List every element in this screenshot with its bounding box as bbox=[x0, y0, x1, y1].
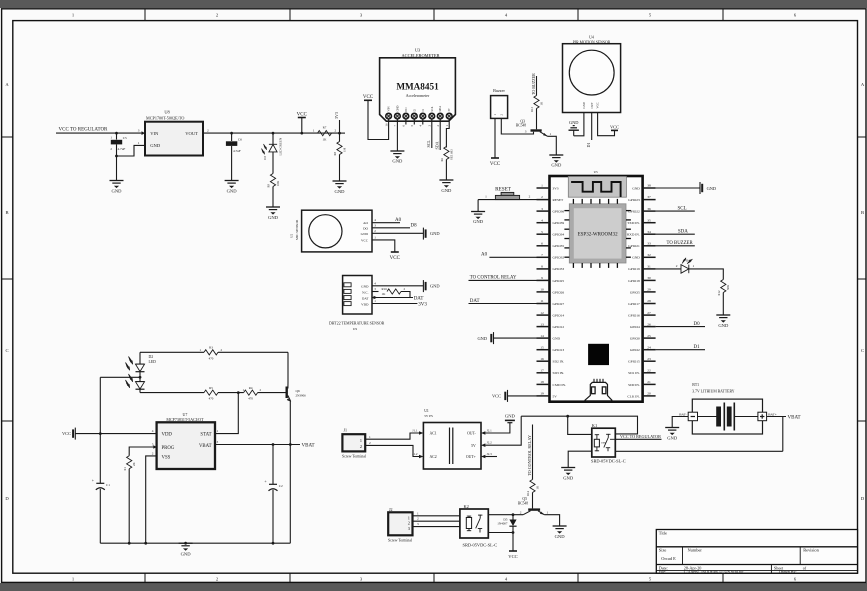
wire K2 coil+ to Q5 collector bbox=[488, 514, 523, 516]
resistor R14 1K bbox=[526, 425, 539, 497]
svg-text:OUT+: OUT+ bbox=[466, 455, 476, 459]
svg-text:GPIO0: GPIO0 bbox=[630, 337, 640, 341]
svg-text:GND: GND bbox=[181, 552, 192, 557]
svg-text:GPIO15: GPIO15 bbox=[628, 360, 640, 364]
svg-text:5V PS: 5V PS bbox=[424, 414, 433, 418]
svg-text:GND: GND bbox=[553, 337, 561, 341]
dual LED D2 bbox=[126, 352, 157, 392]
svg-text:9: 9 bbox=[541, 276, 543, 280]
power VCC left bbox=[62, 428, 75, 440]
svg-text:SCL: SCL bbox=[431, 106, 434, 111]
svg-text:SRD-05VDC-SL-C: SRD-05VDC-SL-C bbox=[463, 542, 498, 547]
node junction at C5 bbox=[115, 132, 118, 135]
wire battery down to relay K1 bbox=[782, 417, 784, 452]
U3 pin stubs and numbers bbox=[389, 119, 450, 124]
svg-text:38: 38 bbox=[647, 184, 651, 188]
svg-text:VSS: VSS bbox=[162, 455, 171, 460]
svg-text:GND: GND bbox=[430, 231, 440, 236]
svg-text:C: C bbox=[861, 348, 864, 353]
svg-text:U5: U5 bbox=[594, 170, 598, 174]
wire to power VCC below bbox=[512, 533, 514, 552]
svg-text:VIN: VIN bbox=[150, 131, 159, 136]
svg-text:GPIO13: GPIO13 bbox=[553, 348, 565, 352]
svg-text:GPIO26: GPIO26 bbox=[553, 290, 565, 294]
svg-text:24: 24 bbox=[647, 345, 651, 349]
svg-text:1: 1 bbox=[313, 129, 315, 133]
svg-text:GPIO19: GPIO19 bbox=[628, 267, 640, 271]
flash chip bbox=[588, 344, 609, 365]
svg-text:Drawn By:: Drawn By: bbox=[779, 569, 797, 574]
svg-text:J1: J1 bbox=[344, 428, 348, 433]
svg-text:D3: D3 bbox=[263, 156, 267, 160]
U3 pad name labels bbox=[388, 105, 452, 111]
usb connector bbox=[585, 379, 612, 401]
svg-text:of: of bbox=[803, 565, 807, 570]
svg-text:U2: U2 bbox=[289, 234, 293, 238]
wire rail to LED middle node bbox=[100, 376, 140, 378]
power VCC bbox=[390, 252, 401, 261]
wire net VCC TO REGULATOR bbox=[56, 132, 145, 134]
wires J2 to K2 bbox=[413, 515, 460, 517]
svg-text:14: 14 bbox=[540, 334, 544, 338]
svg-text:C1: C1 bbox=[106, 483, 110, 487]
bottom rail bbox=[100, 542, 290, 544]
svg-text:R4: R4 bbox=[249, 386, 253, 390]
ground bbox=[266, 207, 280, 215]
svg-text:2: 2 bbox=[541, 195, 543, 199]
svg-text:GPIO34: GPIO34 bbox=[553, 233, 565, 237]
wire STAT up to LED resistors bbox=[214, 393, 238, 434]
svg-text:VCC: VCC bbox=[363, 95, 374, 100]
esp32 chip bbox=[569, 204, 626, 263]
svg-text:VDD: VDD bbox=[361, 302, 369, 306]
svg-text:B: B bbox=[5, 210, 8, 215]
svg-text:2: 2 bbox=[152, 452, 154, 456]
wire SCL bbox=[431, 125, 433, 149]
screw terminal J1 bbox=[342, 428, 366, 459]
wire pin33 to net TO BUZZER bbox=[656, 245, 695, 247]
relay K2 SRD-05VDC-SL-C bbox=[460, 504, 497, 548]
svg-text:GND: GND bbox=[632, 256, 640, 260]
resistor R4 470 bbox=[243, 386, 262, 401]
svg-text:N.C.: N.C. bbox=[362, 290, 369, 294]
svg-text:1: 1 bbox=[417, 511, 419, 515]
svg-text:J1.2: J1.2 bbox=[412, 452, 418, 456]
svg-text:3V3: 3V3 bbox=[553, 186, 559, 190]
power gnd bar bbox=[422, 228, 424, 240]
svg-text:36: 36 bbox=[647, 207, 651, 211]
wire Q5 emitter to gnd bbox=[544, 515, 559, 526]
resistor R16 1K on N.C. pin bbox=[372, 287, 410, 298]
svg-text:VCC TO REGULATOR: VCC TO REGULATOR bbox=[620, 434, 661, 439]
chip pins bbox=[564, 199, 631, 268]
svg-text:2: 2 bbox=[520, 510, 522, 514]
svg-text:1: 1 bbox=[408, 515, 410, 520]
svg-text:VCC TO REGULATOR: VCC TO REGULATOR bbox=[59, 128, 109, 133]
svg-text:DAT: DAT bbox=[414, 297, 424, 302]
svg-text:1: 1 bbox=[693, 264, 695, 268]
svg-text:SD1 IN.: SD1 IN. bbox=[628, 371, 640, 375]
ground bbox=[179, 543, 193, 551]
wire coil minus to gnd bbox=[568, 451, 592, 467]
svg-text:2: 2 bbox=[369, 441, 371, 445]
svg-text:5: 5 bbox=[541, 230, 543, 234]
svg-text:17: 17 bbox=[540, 369, 544, 373]
svg-text:DAT: DAT bbox=[362, 296, 370, 300]
U3 pads bbox=[386, 113, 452, 119]
svg-text:R6: R6 bbox=[440, 158, 444, 162]
svg-text:CLK IN.: CLK IN. bbox=[627, 394, 640, 398]
svg-text:GND: GND bbox=[268, 215, 279, 220]
svg-text:K2: K2 bbox=[464, 504, 469, 509]
wire K2 coil- to VCC bbox=[488, 532, 513, 534]
screw terminal J2 bbox=[388, 507, 413, 543]
wire C5 to U8 GND pin bbox=[117, 145, 146, 156]
svg-text:29: 29 bbox=[647, 288, 651, 292]
svg-text:GND: GND bbox=[718, 323, 729, 328]
svg-text:VBAT: VBAT bbox=[788, 415, 801, 420]
svg-text:C2: C2 bbox=[279, 484, 283, 488]
svg-text:GND: GND bbox=[473, 219, 484, 224]
power gnd bar bbox=[422, 280, 424, 292]
svg-text:22: 22 bbox=[647, 369, 651, 373]
svg-text:1: 1 bbox=[369, 435, 371, 439]
wire U2 A0 bbox=[372, 222, 400, 224]
svg-text:GND: GND bbox=[396, 105, 399, 111]
svg-text:20: 20 bbox=[647, 392, 651, 396]
svg-text:2: 2 bbox=[408, 521, 410, 526]
svg-text:GND: GND bbox=[150, 143, 161, 148]
svg-text:A0: A0 bbox=[395, 218, 402, 223]
wire PIR vcc pin bbox=[598, 113, 615, 136]
svg-text:15: 15 bbox=[540, 345, 544, 349]
svg-text:J1.1: J1.1 bbox=[412, 429, 418, 433]
ground (inverted earth) bbox=[569, 120, 579, 136]
terminal arrows U1 left bbox=[419, 431, 423, 435]
svg-text:DO: DO bbox=[405, 107, 408, 111]
svg-text:BT1: BT1 bbox=[692, 383, 699, 387]
svg-text:GND: GND bbox=[707, 186, 717, 191]
wire net DAT to pin11 bbox=[469, 303, 537, 305]
wire PIR out pin to net D1 bbox=[591, 113, 593, 141]
resistor R13 1K bbox=[530, 76, 543, 114]
svg-text:R12: R12 bbox=[717, 290, 721, 296]
ground bbox=[471, 212, 485, 220]
resistor R9 10K bbox=[267, 174, 281, 208]
LED D4 on pin31 bbox=[656, 268, 681, 270]
svg-text:GND: GND bbox=[569, 120, 579, 125]
svg-text:13: 13 bbox=[540, 322, 544, 326]
svg-text:3V3: 3V3 bbox=[334, 112, 339, 119]
svg-text:GPIO16: GPIO16 bbox=[628, 313, 640, 317]
svg-text:1M: 1M bbox=[343, 148, 347, 153]
svg-text:27: 27 bbox=[647, 311, 651, 315]
antenna block bbox=[568, 177, 626, 198]
svg-text:GPIO2: GPIO2 bbox=[630, 348, 640, 352]
wire buzzer pin2 to Q3 base bbox=[501, 118, 533, 134]
svg-text:OUT: OUT bbox=[590, 102, 594, 108]
svg-text:C:\Users\..\NODEMCU-32S.SchDoc: C:\Users\..\NODEMCU-32S.SchDoc bbox=[684, 569, 744, 574]
svg-text:Revision: Revision bbox=[803, 548, 819, 553]
svg-text:C5: C5 bbox=[123, 136, 127, 140]
svg-text:37: 37 bbox=[647, 195, 651, 199]
svg-text:GND: GND bbox=[551, 163, 562, 168]
svg-text:GPIO27: GPIO27 bbox=[553, 302, 565, 306]
svg-text:2: 2 bbox=[417, 517, 419, 521]
svg-text:AC1: AC1 bbox=[430, 432, 437, 436]
svg-text:VIN: VIN bbox=[388, 107, 391, 112]
svg-text:16: 16 bbox=[540, 357, 544, 361]
power VCC bbox=[490, 158, 501, 167]
svg-text:4: 4 bbox=[541, 218, 543, 222]
wire DHT gnd bbox=[372, 285, 423, 287]
svg-text:MCP1700T-5002E/TO: MCP1700T-5002E/TO bbox=[146, 116, 184, 121]
svg-text:5V: 5V bbox=[553, 394, 558, 398]
capacitor C1 bbox=[92, 477, 111, 490]
PROG input arrow bbox=[153, 445, 157, 449]
svg-text:VCC: VCC bbox=[596, 102, 600, 108]
wire U2 D0 to net D8 bbox=[372, 227, 410, 229]
svg-text:J2.3: J2.3 bbox=[487, 452, 493, 456]
transistor Q5 BC548 bbox=[518, 497, 549, 515]
svg-text:LED GREEN: LED GREEN bbox=[279, 137, 283, 155]
svg-text:K1: K1 bbox=[592, 423, 597, 428]
svg-text:J2.2: J2.2 bbox=[487, 441, 493, 445]
svg-text:U3: U3 bbox=[415, 48, 421, 53]
svg-text:GND: GND bbox=[441, 188, 452, 193]
svg-text:GND: GND bbox=[361, 232, 369, 236]
svg-text:4.7uF: 4.7uF bbox=[233, 149, 241, 153]
svg-text:31: 31 bbox=[647, 265, 651, 269]
svg-text:33: 33 bbox=[647, 241, 651, 245]
svg-text:A0: A0 bbox=[481, 253, 488, 258]
wire net VCC TO REGULATOR from relay bbox=[615, 438, 661, 440]
svg-text:GND: GND bbox=[227, 189, 238, 194]
svg-text:D1: D1 bbox=[694, 345, 701, 350]
svg-text:SCL: SCL bbox=[678, 206, 687, 211]
svg-text:Title: Title bbox=[659, 531, 667, 536]
svg-text:1K: 1K bbox=[323, 138, 328, 142]
wire D2 bottom through R5 bbox=[140, 392, 204, 394]
svg-text:3V: 3V bbox=[448, 108, 451, 111]
svg-text:Number: Number bbox=[688, 548, 703, 553]
wire J1.2 to AC2 bbox=[365, 445, 419, 456]
svg-text:GND: GND bbox=[632, 186, 640, 190]
wire pin38 to gnd bbox=[656, 187, 700, 189]
svg-text:19: 19 bbox=[540, 392, 544, 396]
svg-text:2: 2 bbox=[676, 264, 678, 268]
wire junction down to coil plus bbox=[568, 416, 592, 434]
ground bbox=[439, 180, 453, 188]
svg-text:35: 35 bbox=[647, 218, 651, 222]
svg-text:BAT-: BAT- bbox=[679, 412, 686, 416]
resistor R3 470 bbox=[199, 346, 222, 361]
svg-text:GND: GND bbox=[361, 285, 369, 289]
wire VOUT rail bbox=[203, 132, 340, 134]
svg-text:VOUT: VOUT bbox=[185, 131, 198, 136]
svg-text:GPIO35: GPIO35 bbox=[553, 244, 565, 248]
svg-text:GND: GND bbox=[505, 413, 516, 418]
svg-text:3.7V LITHIUM BATTERY: 3.7V LITHIUM BATTERY bbox=[692, 390, 734, 394]
svg-text:BAT+: BAT+ bbox=[768, 412, 776, 416]
svg-text:SCL: SCL bbox=[426, 140, 431, 148]
svg-text:7: 7 bbox=[541, 253, 543, 257]
svg-text:5V: 5V bbox=[471, 444, 476, 448]
power VCC bbox=[297, 112, 308, 134]
resistor R1 2K bbox=[123, 456, 136, 543]
svg-text:VCC: VCC bbox=[62, 431, 71, 436]
wire Q3 emitter to ground bbox=[548, 136, 557, 155]
svg-text:Orcad E: Orcad E bbox=[661, 556, 676, 561]
svg-text:21: 21 bbox=[647, 380, 651, 384]
svg-text:GPIO4: GPIO4 bbox=[630, 325, 640, 329]
svg-text:J2.1: J2.1 bbox=[487, 429, 493, 433]
svg-text:GPIO36: GPIO36 bbox=[553, 210, 565, 214]
ground bbox=[549, 155, 563, 163]
svg-text:SDA: SDA bbox=[439, 106, 442, 112]
svg-text:C6: C6 bbox=[238, 138, 242, 142]
svg-text:470: 470 bbox=[209, 356, 214, 360]
svg-text:4.7uF: 4.7uF bbox=[118, 147, 126, 151]
title block bbox=[656, 530, 857, 575]
svg-text:RESET: RESET bbox=[553, 198, 565, 202]
svg-text:Screw Terminal: Screw Terminal bbox=[388, 539, 412, 543]
transistor Q3 BC548 bbox=[516, 114, 552, 137]
capacitor C6 4.7uF bbox=[226, 133, 242, 180]
svg-text:6: 6 bbox=[541, 241, 543, 245]
svg-text:10K: 10K bbox=[276, 180, 280, 186]
svg-text:3: 3 bbox=[217, 440, 219, 444]
svg-text:1: 1 bbox=[541, 184, 543, 188]
svg-text:TXD IN.: TXD IN. bbox=[627, 221, 640, 225]
svg-text:Q6: Q6 bbox=[296, 389, 301, 393]
svg-text:1: 1 bbox=[550, 132, 552, 136]
svg-text:TO BUZZER: TO BUZZER bbox=[667, 241, 694, 246]
svg-text:com: com bbox=[601, 442, 605, 445]
regulator U8 MCP1700T-5002E/TO bbox=[138, 110, 209, 156]
svg-text:SDA: SDA bbox=[434, 141, 439, 149]
svg-text:TO CONTROL RELAY: TO CONTROL RELAY bbox=[527, 435, 532, 476]
wire OUT+ stub bbox=[485, 456, 497, 458]
svg-text:34: 34 bbox=[647, 230, 651, 234]
resistor R8 1M bbox=[333, 133, 347, 181]
wire OUT- to gnd bbox=[485, 423, 510, 433]
wire SDA bbox=[439, 125, 441, 151]
svg-text:GND: GND bbox=[112, 189, 123, 194]
svg-text:VCC: VCC bbox=[490, 162, 501, 167]
svg-text:470: 470 bbox=[209, 397, 214, 401]
wire U3 pin7 to ground bbox=[396, 125, 398, 152]
svg-text:RXD IN.: RXD IN. bbox=[627, 233, 640, 237]
svg-text:DHT22 TEMPERATURE SENSOR: DHT22 TEMPERATURE SENSOR bbox=[329, 322, 385, 326]
svg-text:GPIO23: GPIO23 bbox=[628, 198, 640, 202]
svg-text:SDA: SDA bbox=[678, 230, 688, 235]
resistor R6 4.7K bbox=[440, 147, 453, 181]
svg-text:GND: GND bbox=[555, 534, 566, 539]
wire pin24 to net D1 bbox=[656, 349, 705, 351]
svg-text:U1: U1 bbox=[424, 409, 429, 413]
svg-text:28: 28 bbox=[647, 299, 651, 303]
svg-text:GND: GND bbox=[335, 189, 346, 194]
wire pin26 to net D0 bbox=[656, 326, 705, 328]
svg-text:SEE 683: SEE 683 bbox=[449, 149, 453, 160]
svg-text:LED: LED bbox=[149, 360, 157, 364]
terminal arrows U1 right bbox=[481, 431, 485, 435]
wire Q5 base up through R14 bbox=[532, 493, 534, 509]
wire VSS down bbox=[146, 456, 157, 543]
esp32 module pin numbers and names bbox=[540, 184, 651, 399]
svg-text:R3: R3 bbox=[209, 346, 213, 350]
transistor Q6 2N3906 bbox=[286, 352, 307, 402]
wire U2 GND bbox=[372, 232, 423, 234]
svg-text:GND: GND bbox=[667, 436, 678, 441]
svg-text:12: 12 bbox=[540, 311, 544, 315]
svg-text:11: 11 bbox=[540, 299, 544, 303]
ground bbox=[225, 181, 239, 189]
svg-text:1: 1 bbox=[138, 141, 140, 145]
converter U1 bbox=[423, 409, 481, 469]
svg-text:Buzzer: Buzzer bbox=[493, 88, 505, 93]
svg-text:SRD-05VDC-SL-C: SRD-05VDC-SL-C bbox=[591, 458, 626, 463]
svg-text:3: 3 bbox=[541, 207, 543, 211]
svg-text:VCC: VCC bbox=[492, 394, 501, 399]
svg-text:1: 1 bbox=[547, 510, 549, 514]
svg-text:2: 2 bbox=[529, 195, 531, 199]
svg-text:8: 8 bbox=[541, 265, 543, 269]
svg-text:File:: File: bbox=[659, 569, 666, 574]
svg-text:CMD IN.: CMD IN. bbox=[553, 383, 567, 387]
svg-text:Accelerometer: Accelerometer bbox=[406, 93, 430, 98]
svg-text:2: 2 bbox=[335, 129, 337, 133]
resistor R12 1K bbox=[717, 280, 730, 316]
svg-text:GPIO22: GPIO22 bbox=[628, 210, 640, 214]
svg-text:D8: D8 bbox=[411, 223, 418, 228]
svg-text:AC2: AC2 bbox=[430, 455, 437, 459]
svg-text:RESET: RESET bbox=[495, 187, 512, 193]
capacitor C5 4.7uF bbox=[110, 133, 127, 156]
svg-text:D2: D2 bbox=[149, 355, 154, 359]
diode D5 1N4007 bbox=[497, 515, 516, 533]
capacitor C2 bbox=[264, 445, 283, 544]
power VCC at pin19 bbox=[507, 390, 509, 402]
svg-text:GPIO17: GPIO17 bbox=[628, 302, 640, 306]
wire C5 down bbox=[116, 156, 118, 181]
svg-text:VCC: VCC bbox=[297, 112, 308, 117]
svg-text:GND: GND bbox=[477, 336, 487, 341]
svg-text:VCC: VCC bbox=[390, 256, 401, 261]
svg-text:GND: GND bbox=[563, 476, 574, 481]
svg-text:VBAT: VBAT bbox=[199, 444, 212, 449]
svg-text:GPIO32: GPIO32 bbox=[553, 256, 565, 260]
power gnd at pin14 bbox=[493, 332, 495, 344]
svg-text:U9: U9 bbox=[353, 327, 357, 331]
svg-text:VDD: VDD bbox=[162, 433, 173, 438]
svg-text:VCC: VCC bbox=[508, 554, 517, 559]
vertical rail from LEDs to bottom bbox=[99, 377, 101, 483]
svg-text:DO: DO bbox=[363, 227, 368, 231]
svg-text:3: 3 bbox=[138, 128, 140, 132]
svg-text:1N4007: 1N4007 bbox=[497, 522, 508, 526]
wire PIR gnd pin bbox=[574, 113, 584, 136]
svg-text:3: 3 bbox=[417, 522, 419, 526]
wire pin34 to net SDA bbox=[656, 233, 695, 235]
svg-text:4: 4 bbox=[152, 429, 154, 433]
LED D3 bbox=[262, 133, 283, 173]
svg-text:R7: R7 bbox=[323, 125, 327, 129]
svg-text:BC548: BC548 bbox=[518, 501, 528, 505]
svg-text:R9: R9 bbox=[267, 184, 271, 188]
svg-text:B: B bbox=[861, 210, 864, 215]
